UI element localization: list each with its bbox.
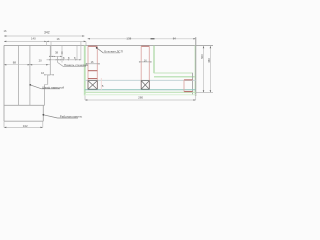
- svg-text:88: 88: [13, 60, 17, 64]
- svg-text:138: 138: [126, 37, 131, 41]
- svg-text:38: 38: [55, 50, 59, 54]
- svg-text:140: 140: [31, 37, 36, 41]
- svg-text:Рабочая панель: Рабочая панель: [60, 115, 83, 119]
- svg-text:84: 84: [173, 37, 177, 41]
- svg-text:Шкаф навесной: Шкаф навесной: [42, 85, 64, 89]
- svg-text:500: 500: [200, 54, 204, 59]
- svg-text:342: 342: [44, 31, 50, 35]
- svg-text:16: 16: [57, 37, 61, 41]
- svg-text:Панель стеновая: Панель стеновая: [64, 63, 88, 67]
- svg-text:280: 280: [138, 96, 143, 100]
- svg-text:460: 460: [207, 58, 211, 63]
- svg-text:Боковая ДСП: Боковая ДСП: [104, 49, 123, 53]
- svg-text:342: 342: [23, 124, 28, 128]
- svg-text:16: 16: [41, 71, 45, 75]
- svg-text:20: 20: [39, 59, 43, 63]
